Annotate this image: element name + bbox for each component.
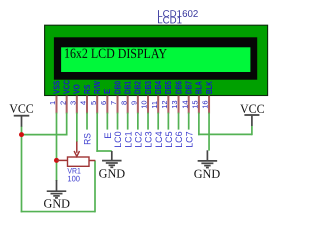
pin 12 (DB5) stub <box>167 96 169 114</box>
wire pin14 stub down <box>188 113 190 130</box>
svg-text:DB5: DB5 <box>163 81 173 94</box>
svg-text:GND: GND <box>99 167 126 181</box>
pin 8 (DB1) stub <box>127 96 129 114</box>
wire VCC right stem down <box>251 126 253 135</box>
wire VCC rail horizontal to pin2 <box>22 134 68 136</box>
svg-text:DB6: DB6 <box>173 81 183 94</box>
svg-text:RS: RS <box>83 133 94 145</box>
junction node VCC rail <box>19 132 24 137</box>
svg-text:3: 3 <box>68 101 77 105</box>
pin 15 (BLA) stub <box>198 96 200 114</box>
pin 1 (VSS) stub <box>56 96 58 114</box>
wire pin15 BLA down <box>198 113 200 136</box>
wire pin15 to VCC right <box>198 133 252 135</box>
potentiometer VR1 wiper arrow <box>74 142 79 157</box>
svg-text:16: 16 <box>201 100 210 108</box>
svg-text:BLA: BLA <box>194 81 204 94</box>
wire pin4 RS stub down <box>86 113 88 130</box>
svg-text:10: 10 <box>140 100 149 108</box>
LCD module LCD1 body <box>45 25 268 95</box>
svg-text:VCC: VCC <box>9 102 34 116</box>
svg-text:DB7: DB7 <box>184 81 194 94</box>
pin 10 (DB3) stub <box>147 96 149 114</box>
wire pin3 VO down to pot wiper <box>76 113 78 142</box>
svg-text:LCD1: LCD1 <box>157 15 182 26</box>
svg-text:DB1: DB1 <box>122 81 132 94</box>
wire pin8 stub down <box>127 113 129 130</box>
wire pin2 VCC down <box>66 113 68 136</box>
pin 13 (DB6) stub <box>178 96 180 114</box>
pin 7 (DB0) stub <box>117 96 119 114</box>
junction node pot left / VSS ground <box>54 158 59 163</box>
svg-text:VSS: VSS <box>51 80 61 94</box>
svg-text:DB4: DB4 <box>153 81 163 94</box>
wire VCC left vertical rail <box>21 126 23 212</box>
svg-text:VO: VO <box>72 84 82 94</box>
svg-text:GND: GND <box>44 197 71 211</box>
svg-text:9: 9 <box>129 101 138 105</box>
svg-text:1: 1 <box>48 101 57 105</box>
wire pin6 E stub down <box>106 113 108 130</box>
pin 6 (E) stub <box>106 96 108 114</box>
svg-text:RS: RS <box>82 84 92 94</box>
power symbol VCC (right) <box>240 102 265 126</box>
pin 9 (DB2) stub <box>137 96 139 114</box>
wire up to pot right terminal <box>94 161 96 213</box>
pin 3 (VO) stub <box>76 96 78 114</box>
pin 2 (VCC) stub <box>66 96 68 114</box>
wire pin16 BLK down to ground <box>208 113 210 151</box>
svg-text:VCC: VCC <box>240 102 265 116</box>
svg-text:6: 6 <box>99 101 108 105</box>
svg-text:5: 5 <box>89 101 98 105</box>
wire pin12 stub down <box>167 113 169 130</box>
svg-text:DB3: DB3 <box>143 81 153 94</box>
wire pin5 jog right to ground symbol <box>96 150 111 152</box>
svg-text:100: 100 <box>67 174 80 183</box>
svg-text:4: 4 <box>79 101 88 105</box>
svg-text:7: 7 <box>109 101 118 105</box>
wire pin13 stub down <box>178 113 180 130</box>
wire pin11 stub down <box>157 113 159 130</box>
wire bottom rail <box>21 211 95 213</box>
svg-text:LC7: LC7 <box>184 131 195 147</box>
svg-text:13: 13 <box>170 100 179 108</box>
svg-text:R/W: R/W <box>92 80 102 94</box>
wire pin1 VSS down to ground net <box>56 113 58 181</box>
svg-text:DB0: DB0 <box>112 81 122 94</box>
pin 11 (DB4) stub <box>157 96 159 114</box>
svg-text:11: 11 <box>150 101 159 109</box>
potentiometer VR1 body <box>57 157 96 166</box>
wire pin10 stub down <box>147 113 149 130</box>
wire pin9 stub down <box>137 113 139 130</box>
svg-text:16x2 LCD DISPLAY: 16x2 LCD DISPLAY <box>64 47 167 62</box>
svg-text:E: E <box>102 89 112 94</box>
wire pin7 stub down <box>117 113 119 130</box>
ground symbol (middle, R/W) <box>99 151 126 181</box>
svg-text:DB2: DB2 <box>133 81 143 94</box>
svg-text:VCC: VCC <box>61 80 71 94</box>
wire pin5 R/W down <box>96 113 98 152</box>
svg-text:2: 2 <box>58 101 67 105</box>
pin 14 (DB7) stub <box>188 96 190 114</box>
svg-text:14: 14 <box>180 100 189 108</box>
ground symbol (right, BLK) <box>194 150 221 181</box>
ground symbol (left, VSS/pot) <box>44 180 71 211</box>
svg-text:8: 8 <box>119 101 128 105</box>
power symbol VCC (left) <box>9 102 34 127</box>
svg-text:15: 15 <box>190 100 199 108</box>
svg-text:12: 12 <box>160 100 169 108</box>
pin 16 (BLK) stub <box>208 96 210 114</box>
pin 4 (RS) stub <box>86 96 88 114</box>
pin 5 (R/W) stub <box>96 96 98 114</box>
svg-text:GND: GND <box>194 167 221 181</box>
svg-text:BLK: BLK <box>204 81 214 94</box>
